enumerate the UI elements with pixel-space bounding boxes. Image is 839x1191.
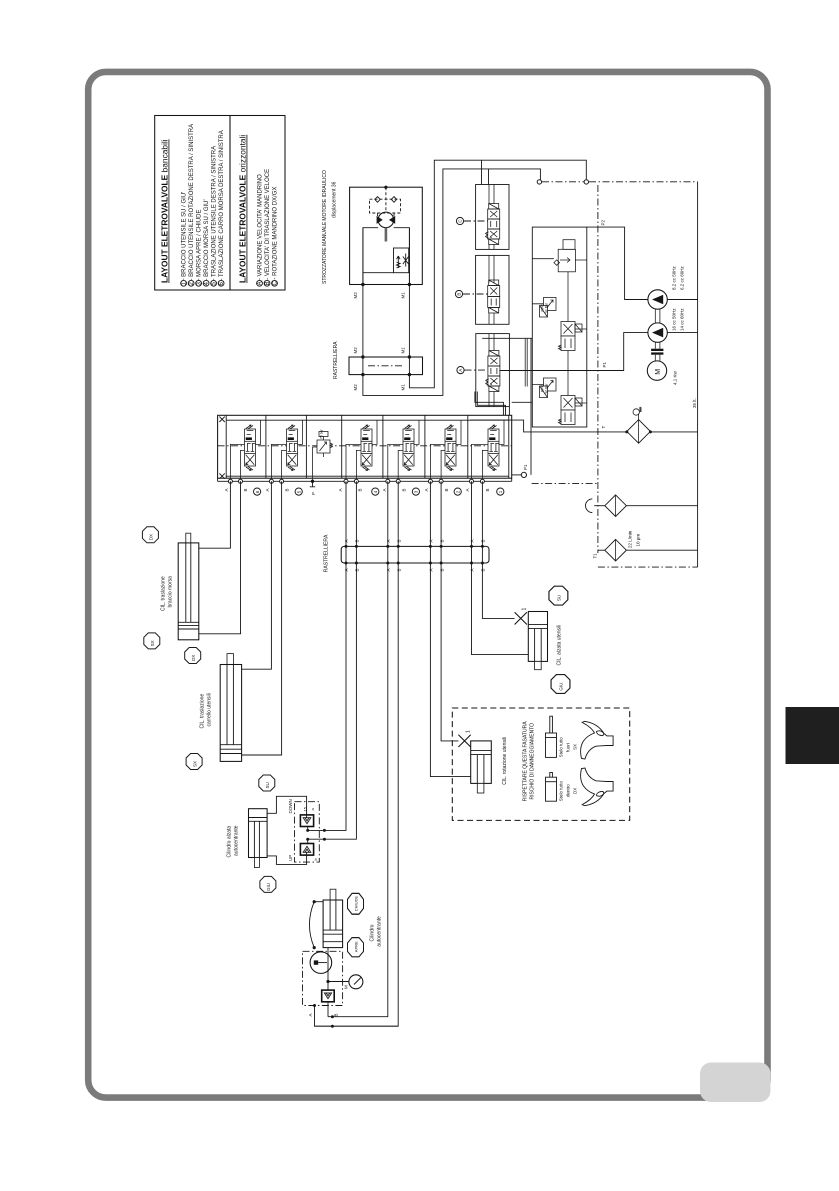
svg-text:B: B bbox=[396, 568, 401, 571]
svg-text:A: A bbox=[344, 568, 349, 571]
bank feed lines from valve section bbox=[475, 392, 510, 416]
wire 1A to alzata utensili bottom bbox=[472, 481, 529, 654]
circled A bbox=[457, 367, 464, 374]
svg-text:M2: M2 bbox=[353, 384, 358, 391]
svg-text:15: 15 bbox=[302, 806, 307, 811]
valve C 4/3 bbox=[486, 204, 500, 245]
svg-text:autocentrante: autocentrante bbox=[234, 825, 240, 856]
circled C bbox=[456, 217, 463, 224]
svg-text:RASTRELLIERA: RASTRELLIERA bbox=[324, 534, 330, 572]
svg-text:A: A bbox=[265, 488, 270, 491]
svg-text:B: B bbox=[444, 488, 449, 491]
svg-text:A: A bbox=[465, 488, 470, 491]
svg-text:Cilindro: Cilindro bbox=[370, 924, 376, 941]
svg-text:4 - BRACCIO MORSA SU / GIU': 4 - BRACCIO MORSA SU / GIU' bbox=[204, 199, 210, 285]
T1 return filter bbox=[598, 549, 605, 551]
bank inlet port P1 bbox=[512, 474, 522, 476]
svg-text:10 μm: 10 μm bbox=[636, 534, 641, 547]
P plug port bbox=[311, 480, 314, 483]
svg-text:GIU: GIU bbox=[559, 683, 564, 691]
svg-text:1: 1 bbox=[522, 608, 528, 611]
return filter with hose arc bbox=[586, 499, 593, 513]
motor ports bbox=[361, 283, 364, 286]
stelo fuori icon bbox=[546, 716, 557, 757]
legend items orizzontali bbox=[258, 169, 279, 286]
svg-text:B: B bbox=[396, 539, 401, 542]
reducer section bbox=[317, 432, 333, 458]
valve C stubs bbox=[489, 185, 494, 250]
M ports on boundary bbox=[537, 180, 541, 184]
gray corner tab bbox=[700, 1063, 771, 1103]
throttle X1 alzata utensili bbox=[515, 612, 527, 624]
gauge line bbox=[328, 981, 349, 983]
svg-text:M1: M1 bbox=[401, 347, 406, 354]
rotazione dashed box bbox=[452, 708, 629, 820]
motor internal wires bbox=[363, 228, 378, 285]
bank midline bbox=[218, 445, 512, 447]
box R internal wires bbox=[532, 259, 587, 403]
wire cyl top to DOWN valve bbox=[267, 796, 307, 815]
page border frame bbox=[88, 72, 767, 1098]
svg-text:B: B bbox=[485, 488, 490, 491]
octagon SU alzata autocentrante bbox=[259, 775, 275, 791]
octagon APRE bbox=[348, 938, 364, 957]
legend box orizzontali bbox=[230, 116, 285, 291]
svg-text:A: A bbox=[386, 539, 391, 542]
svg-text:LAYOUT ELETROVALVOLE bancabili: LAYOUT ELETROVALVOLE bancabili bbox=[160, 139, 170, 283]
cilindro alzata autocentrante body bbox=[249, 809, 268, 868]
bank valve 3 bbox=[403, 425, 414, 471]
svg-text:STROZZATORE MANUALE: STROZZATORE MANUALE bbox=[322, 221, 328, 284]
valve stubs to wires bbox=[307, 827, 309, 844]
bank section internal wires bbox=[230, 420, 260, 481]
relief valve spring arrow bbox=[397, 256, 401, 268]
valve B box bbox=[476, 255, 509, 324]
svg-text:B: B bbox=[401, 488, 406, 491]
bank body bbox=[218, 415, 512, 478]
svg-text:A: A bbox=[470, 539, 475, 542]
svg-text:A: A bbox=[424, 488, 429, 491]
upper connector block bbox=[349, 357, 423, 375]
bank ports bbox=[228, 479, 484, 483]
bypass check symbol bbox=[633, 407, 641, 420]
svg-text:6,2 cc 60Hz: 6,2 cc 60Hz bbox=[680, 265, 685, 290]
svg-text:displacement 36: displacement 36 bbox=[332, 181, 338, 218]
svg-text:CIL. traslazione: CIL. traslazione bbox=[161, 576, 167, 611]
svg-text:A - VARIAZIONE VELOCITA' MANDR: A - VARIAZIONE VELOCITA' MANDRINO bbox=[258, 174, 264, 286]
stelo dentro icon bbox=[546, 773, 557, 802]
svg-text:DX: DX bbox=[191, 655, 196, 661]
vise B exit bbox=[327, 1002, 329, 1017]
svg-text:carrello utensili: carrello utensili bbox=[207, 693, 213, 726]
svg-text:B: B bbox=[355, 539, 360, 542]
relief valve DPC 90 Bar upper bbox=[540, 298, 557, 318]
svg-text:B: B bbox=[481, 568, 486, 571]
pressure control box R bbox=[532, 227, 587, 427]
svg-text:CIL. alzata utensili: CIL. alzata utensili bbox=[557, 625, 563, 666]
relief valve DPC 90 Bar lower bbox=[540, 378, 557, 398]
svg-text:6 - TRASLAZIONE CARRO MORSA DE: 6 - TRASLAZIONE CARRO MORSA DESTRA / SIN… bbox=[219, 130, 225, 285]
svg-text:C - ROTAZIONE MANDRINO DX/GX: C - ROTAZIONE MANDRINO DX/GX bbox=[273, 187, 279, 286]
wire 1B to alzata utensili throttle bbox=[482, 481, 514, 618]
rastrelliera ports bbox=[345, 545, 484, 565]
svg-text:LAYOUT ELETROVALVOLE orizzonta: LAYOUT ELETROVALVOLE orizzontali bbox=[238, 135, 248, 283]
cylinder alzata utensili bbox=[528, 612, 547, 670]
svg-text:DOWN: DOWN bbox=[288, 799, 293, 813]
svg-text:UP: UP bbox=[288, 855, 293, 861]
throttle X1 rotazione bbox=[458, 735, 470, 747]
svg-text:dentro: dentro bbox=[566, 784, 571, 797]
svg-text:1: 1 bbox=[465, 730, 471, 733]
svg-text:T1: T1 bbox=[593, 553, 598, 559]
svg-text:fuori: fuori bbox=[566, 743, 571, 752]
svg-text:SX: SX bbox=[192, 761, 197, 767]
hydraulic motor block box bbox=[350, 187, 423, 284]
svg-text:SX: SX bbox=[573, 744, 578, 750]
pump 2 bbox=[648, 323, 667, 342]
svg-text:P1: P1 bbox=[602, 361, 607, 367]
UP DOWN valve dashed box bbox=[295, 802, 320, 862]
svg-text:B: B bbox=[457, 293, 462, 296]
wire 5B to cyl2 bottom bbox=[242, 481, 282, 755]
svg-text:A: A bbox=[224, 488, 229, 491]
svg-text:3 - MORSA APRE / CHIUDE: 3 - MORSA APRE / CHIUDE bbox=[197, 209, 203, 285]
wire 4A to down valve bbox=[308, 481, 346, 830]
svg-text:CIL. rotazione utensili: CIL. rotazione utensili bbox=[502, 737, 508, 785]
svg-text:B - VELOCITA' DI TRASLAZIONE V: B - VELOCITA' DI TRASLAZIONE VELOCE bbox=[265, 169, 271, 286]
svg-text:90 Bar: 90 Bar bbox=[544, 383, 548, 394]
wire 2A to rotazione bbox=[430, 481, 470, 776]
svg-text:T: T bbox=[601, 426, 606, 429]
svg-text:A: A bbox=[308, 1013, 313, 1016]
octagon SU utensili bbox=[549, 586, 568, 605]
svg-text:A: A bbox=[429, 568, 434, 571]
svg-text:16 cc 50Hz: 16 cc 50Hz bbox=[672, 308, 677, 331]
bank port line bbox=[218, 480, 512, 482]
solenoid valve VB bbox=[559, 322, 583, 351]
rastrelliera port labels bbox=[344, 539, 485, 571]
wire 6A to cyl1 top bbox=[199, 481, 231, 548]
svg-text:RISPETTARE QUESTA FASATURA: RISPETTARE QUESTA FASATURA bbox=[523, 721, 529, 801]
svg-text:GIU: GIU bbox=[266, 883, 271, 891]
octagon SX cyl1 bbox=[144, 633, 160, 649]
channel lines valve A to box R bbox=[512, 339, 533, 403]
legend letter circles bbox=[257, 280, 278, 286]
legend item number circles bbox=[181, 280, 224, 286]
P line to bank riser bbox=[482, 337, 532, 339]
svg-text:RISCHIO DI DANNEGGIAMENTO: RISCHIO DI DANNEGGIAMENTO bbox=[530, 723, 536, 800]
vise dashed box bbox=[303, 951, 343, 1005]
tank boundary bbox=[542, 181, 584, 183]
vise line down bbox=[327, 948, 329, 991]
octagon GIU alzata autocentrante bbox=[260, 876, 276, 892]
svg-text:B: B bbox=[355, 568, 360, 571]
octagon DX cyl2 bbox=[185, 648, 201, 664]
svg-text:2 - BRACCIO UTENSILE ROTAZIONE: 2 - BRACCIO UTENSILE ROTAZIONE DESTRA / … bbox=[189, 124, 195, 286]
svg-text:CIL. traslazione: CIL. traslazione bbox=[200, 694, 206, 729]
svg-text:35 lt.: 35 lt. bbox=[692, 398, 697, 408]
svg-text:M: M bbox=[655, 369, 662, 375]
UP cartridge valve bbox=[300, 844, 313, 856]
rotary booster circle bbox=[310, 952, 332, 974]
octagon CHIUDE bbox=[348, 893, 364, 914]
cylinder rotazione utensili bbox=[471, 741, 492, 793]
bank section boundaries bbox=[226, 415, 509, 478]
end plate X marks bbox=[219, 417, 224, 479]
hose arc bbox=[309, 902, 314, 948]
bank valve 4 bbox=[361, 425, 372, 471]
svg-text:4,1 Kw: 4,1 Kw bbox=[673, 370, 678, 385]
svg-text:P2: P2 bbox=[601, 219, 606, 225]
valve A box bbox=[476, 334, 510, 407]
octagon DX cyl1 bbox=[142, 527, 158, 543]
P1 line pump2 to valves bbox=[499, 333, 648, 371]
electric motor bbox=[647, 361, 666, 380]
drain dash-dot bbox=[532, 482, 599, 484]
svg-text:B: B bbox=[358, 488, 363, 491]
legend items bancabili bbox=[182, 124, 226, 286]
motor drain dashed box bbox=[370, 199, 401, 213]
bank valve 2 bbox=[445, 425, 456, 471]
wire 2B to rotazione throttle bbox=[441, 481, 458, 741]
svg-text:M1: M1 bbox=[401, 292, 406, 299]
DOWN cartridge valve bbox=[300, 815, 313, 827]
svg-text:A: A bbox=[470, 568, 475, 571]
svg-text:A: A bbox=[386, 568, 391, 571]
svg-text:RASTRELLIERA: RASTRELLIERA bbox=[333, 341, 339, 379]
bank valve 5 bbox=[287, 425, 298, 471]
wire 4B to up valve bbox=[308, 481, 357, 839]
valve A 4/3 bbox=[486, 351, 500, 392]
claw icon dentro bbox=[581, 768, 613, 806]
wire 3A to vise bbox=[315, 481, 399, 1026]
svg-text:autocentrante: autocentrante bbox=[377, 916, 383, 947]
gauge bbox=[349, 975, 363, 989]
vise cylinder autocentrante bbox=[323, 889, 343, 947]
suction filter diamond bbox=[627, 420, 651, 444]
reducer port wire bbox=[313, 447, 318, 481]
rastrelliera connector block bbox=[341, 546, 489, 563]
LP unloading valve bbox=[554, 240, 576, 272]
hydraulic motor circle bbox=[378, 212, 394, 228]
valve C box bbox=[476, 185, 509, 250]
T return line bbox=[470, 420, 627, 432]
octagon SX cyl2 bbox=[186, 754, 202, 770]
vise A exit bbox=[315, 1006, 399, 1027]
svg-text:APRE: APRE bbox=[354, 941, 359, 952]
wire cyl bottom to UP valve bbox=[267, 855, 307, 864]
drain dashed line bbox=[385, 187, 387, 212]
relief + throttle box bbox=[394, 248, 409, 273]
svg-text:8,2 cc 50Hz: 8,2 cc 50Hz bbox=[672, 265, 677, 290]
bank valve 1 bbox=[488, 425, 499, 471]
bank inner gallery lines bbox=[226, 420, 509, 476]
svg-text:75 bar: 75 bar bbox=[319, 429, 323, 439]
octagon GIU utensili bbox=[551, 675, 570, 694]
leader B bbox=[463, 293, 488, 295]
black sidebar tab bbox=[786, 707, 839, 764]
svg-text:M: M bbox=[344, 985, 349, 989]
bank section number circles bbox=[254, 488, 504, 495]
svg-text:90 Bar: 90 Bar bbox=[544, 302, 548, 313]
coupling bbox=[655, 342, 660, 348]
wire M2 from motor to piastra bbox=[363, 169, 541, 396]
svg-text:B: B bbox=[439, 568, 444, 571]
leader A bbox=[465, 369, 488, 371]
wire M1 from motor to piastra bbox=[409, 160, 586, 388]
pump 1 bbox=[648, 290, 667, 309]
svg-text:M2: M2 bbox=[353, 347, 358, 354]
motor shaft bbox=[385, 228, 388, 242]
svg-text:braccio morsa: braccio morsa bbox=[168, 576, 174, 608]
svg-text:DX: DX bbox=[149, 534, 154, 540]
leader C bbox=[464, 220, 488, 222]
svg-text:5 - TRASLAZIONE UTENSILE DESTR: 5 - TRASLAZIONE UTENSILE DESTRA / SINIST… bbox=[212, 146, 218, 286]
svg-text:SU: SU bbox=[557, 595, 562, 601]
svg-text:A: A bbox=[344, 539, 349, 542]
check diamonds bbox=[375, 197, 397, 203]
svg-text:B: B bbox=[243, 488, 248, 491]
bank port labels bbox=[224, 488, 490, 491]
svg-text:P1: P1 bbox=[523, 464, 528, 470]
svg-text:SU: SU bbox=[265, 782, 270, 788]
svg-text:Stelo tutto: Stelo tutto bbox=[559, 737, 564, 758]
wire 6B to cyl1 bottom bbox=[199, 481, 241, 634]
svg-text:M1: M1 bbox=[401, 384, 406, 391]
svg-text:SX: SX bbox=[150, 640, 155, 646]
manual throttle X bbox=[403, 254, 409, 267]
wire 3B to vise bbox=[328, 481, 388, 1016]
cylinder traslazione carrello utensili bbox=[220, 654, 241, 762]
solenoid valve VM bbox=[559, 396, 583, 425]
valve B 2/2 bbox=[488, 280, 500, 313]
svg-text:Cilindro alzata: Cilindro alzata bbox=[227, 826, 233, 858]
svg-text:A: A bbox=[458, 369, 463, 372]
svg-text:B: B bbox=[439, 539, 444, 542]
claw icon fuori bbox=[581, 721, 613, 759]
svg-text:DX: DX bbox=[573, 788, 578, 794]
svg-text:B: B bbox=[284, 488, 289, 491]
svg-text:Stelo tutto: Stelo tutto bbox=[559, 780, 564, 801]
svg-text:14 cc 60Hz: 14 cc 60Hz bbox=[680, 308, 685, 331]
svg-text:A: A bbox=[429, 539, 434, 542]
check valve cartridge bbox=[322, 990, 335, 1002]
svg-text:P: P bbox=[311, 492, 316, 495]
cylinder traslazione braccio morsa bbox=[178, 533, 199, 640]
svg-text:B: B bbox=[481, 539, 486, 542]
svg-text:MOTORE IDRAULICO: MOTORE IDRAULICO bbox=[322, 170, 328, 221]
circled B bbox=[455, 290, 462, 297]
svg-text:22 L/min: 22 L/min bbox=[628, 530, 633, 548]
pump shaft bbox=[655, 309, 660, 323]
bank valve 6 bbox=[245, 425, 256, 471]
svg-text:CHIUDE: CHIUDE bbox=[354, 896, 359, 912]
svg-text:B: B bbox=[333, 1013, 338, 1016]
legend box bancabili bbox=[155, 116, 230, 291]
wire 5A to cyl2 top bbox=[242, 481, 272, 669]
svg-text:A: A bbox=[338, 488, 343, 491]
feed drops into valve C bbox=[481, 160, 483, 184]
svg-text:1 - BRACCIO UTENSILE SU / GIU': 1 - BRACCIO UTENSILE SU / GIU' bbox=[182, 192, 188, 286]
svg-text:A: A bbox=[382, 488, 387, 491]
svg-text:M2: M2 bbox=[353, 292, 358, 299]
P2 line pump1 to box bbox=[587, 227, 648, 299]
